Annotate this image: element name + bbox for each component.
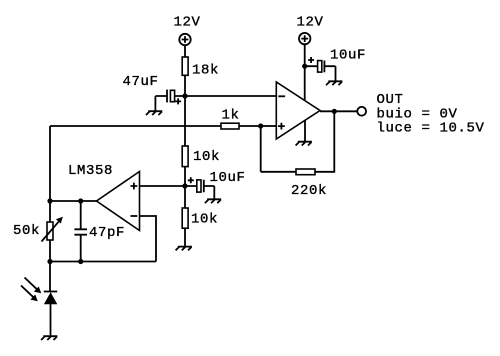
wire node A to right op-amp inverting input <box>185 95 276 97</box>
svg-text:220k: 220k <box>291 183 327 199</box>
+ input mark (right op-amp) <box>278 123 285 130</box>
svg-text:10uF: 10uF <box>330 47 366 63</box>
svg-text:12V: 12V <box>174 15 201 31</box>
wire signal row to 1k <box>50 125 221 127</box>
wire left vertical column <box>49 126 51 201</box>
svg-text:18k: 18k <box>192 62 219 78</box>
svg-text:LM358: LM358 <box>68 163 113 179</box>
node F (47pF bottom / feedback) <box>78 259 83 264</box>
wire feedback bottom row <box>50 261 156 263</box>
wire feedback right loop <box>261 111 335 172</box>
resistor 1k <box>221 123 239 129</box>
potentiometer 50k body <box>47 222 53 240</box>
- input mark (left op-amp) <box>131 215 138 217</box>
capacitor 47pF <box>74 201 87 262</box>
svg-text:luce = 10.5V: luce = 10.5V <box>377 120 485 136</box>
wire op-amp A output to left column <box>50 200 97 202</box>
svg-text:10uF: 10uF <box>210 170 246 186</box>
capacitor 10uF (middle, polarized) <box>185 177 214 199</box>
wire 18k to node A <box>184 75 186 96</box>
wire 1k to node C <box>239 125 261 127</box>
light arrows into photodiode <box>21 278 41 302</box>
ground for op-amp B <box>296 142 312 146</box>
resistor 220k <box>296 169 315 175</box>
capacitor 47uF (polarized) <box>155 90 185 112</box>
capacitor 10uF top (polarized) <box>305 57 336 81</box>
node G (pot bottom / photodiode) <box>47 259 52 264</box>
node E (left column / pot top) <box>47 198 52 203</box>
op-amp LM358 B (right, pointing right) <box>276 82 320 139</box>
ground for 47uF <box>146 111 162 115</box>
wire node G to photodiode <box>49 262 51 292</box>
wire pot leads <box>49 201 51 262</box>
ground for divider <box>176 247 192 251</box>
output terminal circle <box>357 107 366 116</box>
node B (10k / 10k / + input / 10uF) <box>182 183 187 188</box>
node D (output / 47pF top) <box>78 198 83 203</box>
wire node B to left op-amp + input <box>140 185 186 187</box>
svg-text:47pF: 47pF <box>89 225 125 241</box>
resistor 10k upper <box>182 146 188 167</box>
svg-text:50k: 50k <box>13 223 40 239</box>
wire supply to op-amp B V+ pin <box>304 44 306 101</box>
wire middle column node A down to upper 10k (crosses signal wire) <box>184 96 186 146</box>
power supply +12V left (circle with plus) <box>179 34 190 45</box>
op-amp LM358 A (left, pointing left) <box>97 172 140 231</box>
resistor 10k lower <box>182 208 188 228</box>
wire op-amp B output <box>320 110 357 112</box>
power supply +12V right (circle with plus) <box>299 33 310 44</box>
potentiometer 50k arrow <box>42 217 63 242</box>
wire node C to + input <box>261 125 277 127</box>
photodiode D1 <box>44 292 58 337</box>
ground for middle 10uF <box>205 199 221 203</box>
ground for photodiode <box>41 336 57 340</box>
wire supply to 18k <box>184 45 186 58</box>
svg-text:1k: 1k <box>222 107 240 123</box>
svg-text:10k: 10k <box>191 211 218 227</box>
resistor 18k <box>182 57 188 75</box>
+ input mark (left op-amp) <box>131 183 138 190</box>
svg-text:47uF: 47uF <box>123 74 159 90</box>
- input mark (right op-amp) <box>278 95 285 97</box>
wire op-amp B ground pin <box>304 121 306 142</box>
svg-text:12V: 12V <box>297 15 324 31</box>
node H (V+ / 10uF) <box>302 64 307 69</box>
node C (+ input right op-amp / 220k feedback) <box>258 123 263 128</box>
wire node B to lower 10k <box>184 186 186 208</box>
wire - input to feedback <box>140 216 157 262</box>
svg-text:10k: 10k <box>193 149 220 165</box>
wire lower 10k to ground <box>184 228 186 246</box>
node I (output / feedback) <box>332 109 337 114</box>
node A (18k / 47uF / inverting input) <box>182 93 187 98</box>
wire upper 10k to node B <box>184 167 186 186</box>
ground for top 10uF <box>326 81 342 85</box>
